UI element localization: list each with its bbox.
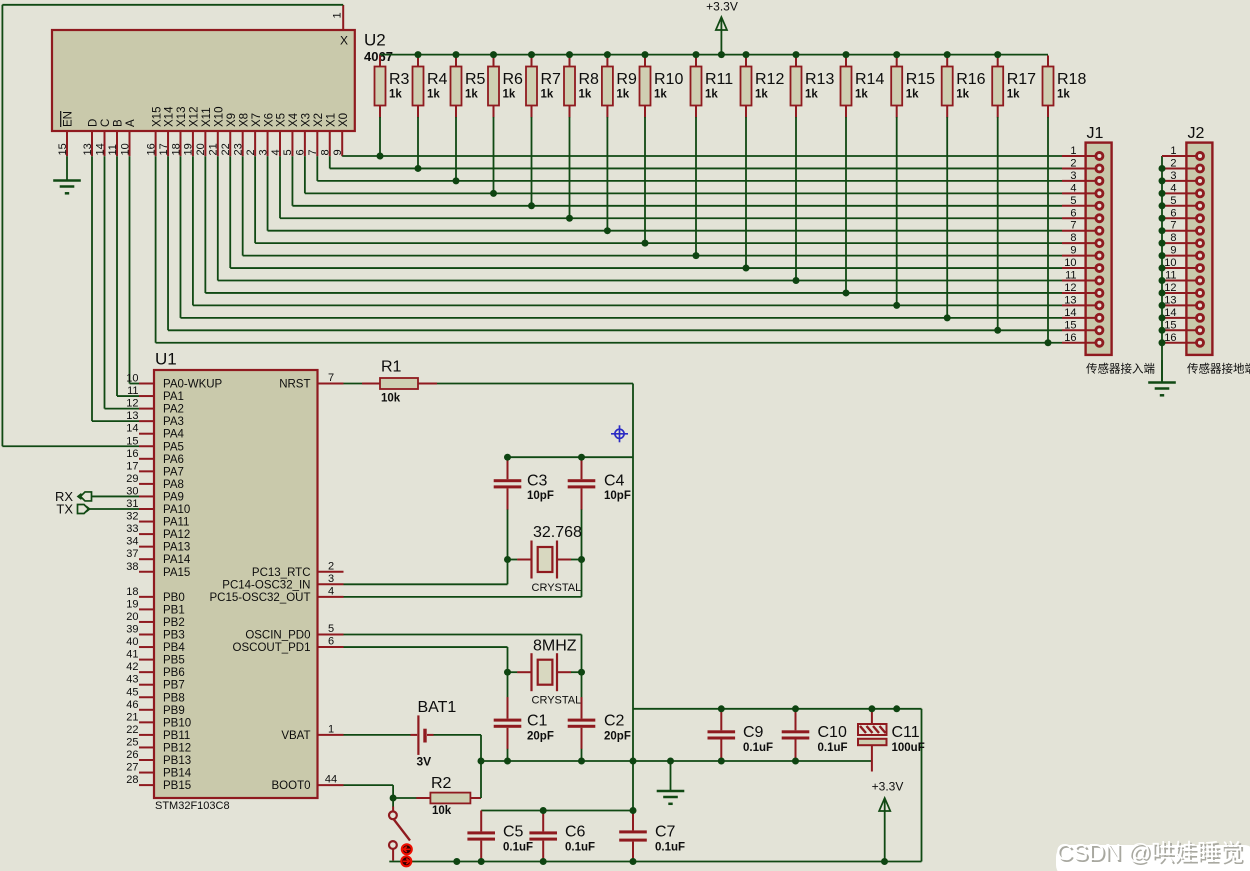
svg-text:PA4: PA4 (163, 429, 184, 441)
svg-text:X1: X1 (325, 113, 337, 127)
J2 pin 15 (1159, 319, 1204, 334)
svg-text:22: 22 (220, 143, 232, 155)
svg-text:10pF: 10pF (604, 490, 631, 502)
svg-text:28: 28 (126, 774, 138, 786)
svg-text:43: 43 (126, 674, 138, 686)
extra junction dot right of C11 (893, 705, 900, 712)
svg-text:33: 33 (126, 523, 138, 535)
svg-text:4: 4 (328, 585, 334, 597)
svg-text:R12: R12 (755, 71, 784, 88)
svg-text:18: 18 (126, 586, 138, 598)
svg-text:CRYSTAL: CRYSTAL (532, 695, 582, 707)
svg-text:14: 14 (126, 423, 138, 435)
svg-text:R11: R11 (705, 71, 733, 88)
svg-text:2: 2 (245, 149, 257, 155)
svg-text:PA5: PA5 (163, 441, 184, 453)
svg-text:1k: 1k (579, 89, 592, 101)
capacitor C7 0.1uF in main vertical (619, 811, 685, 862)
junction dot R9 to row 7 (604, 227, 611, 234)
svg-text:PB3: PB3 (163, 630, 185, 642)
junction dot R10 to row 8 (642, 240, 649, 247)
svg-text:PB2: PB2 (163, 617, 185, 629)
J2 pin 10 (1159, 257, 1204, 272)
J2 pin 8 (1159, 232, 1204, 247)
ground at mid rail (657, 761, 685, 804)
svg-text:R1: R1 (381, 359, 402, 376)
J2 pin 1 (1162, 145, 1204, 160)
svg-text:16: 16 (1064, 332, 1076, 344)
svg-text:13: 13 (1064, 294, 1076, 306)
junction dot R4 to row 2 (415, 165, 422, 172)
svg-text:3: 3 (1170, 170, 1176, 182)
svg-text:7: 7 (307, 149, 319, 155)
svg-text:PB5: PB5 (163, 655, 185, 667)
svg-text:R6: R6 (503, 71, 524, 88)
svg-text:1: 1 (1170, 145, 1176, 157)
svg-text:X6: X6 (263, 113, 275, 127)
svg-text:9: 9 (1070, 245, 1076, 257)
svg-text:20: 20 (126, 611, 138, 623)
svg-text:1k: 1k (541, 89, 554, 101)
svg-text:PC14-OSC32_IN: PC14-OSC32_IN (222, 579, 310, 591)
svg-text:NRST: NRST (279, 379, 310, 391)
svg-text:1k: 1k (906, 89, 919, 101)
wire U2 B to U1 PA1 (117, 156, 139, 396)
svg-text:41: 41 (126, 649, 138, 661)
J2 pin 5 (1159, 195, 1204, 210)
svg-text:3: 3 (1070, 170, 1076, 182)
terminal TX output arrow (56, 502, 139, 517)
wire J2 common vertical to ground (1161, 156, 1163, 381)
svg-text:0.1uF: 0.1uF (565, 842, 595, 854)
junction dot R11 to row 9 (693, 252, 700, 259)
wire U2 X5 to bus row 6 and J1 pin 6 (280, 156, 1062, 218)
svg-text:R2: R2 (431, 775, 452, 792)
svg-text:12: 12 (1164, 282, 1176, 294)
wire R2 to battery rail node (480, 761, 482, 798)
svg-text:0.1uF: 0.1uF (818, 742, 848, 754)
svg-text:R3: R3 (389, 71, 410, 88)
U1 pin PB13 (pin 26) (126, 749, 191, 767)
svg-text:1k: 1k (503, 89, 516, 101)
svg-text:6: 6 (1070, 207, 1076, 219)
resistor R2 10k (393, 775, 481, 817)
svg-text:1k: 1k (1007, 89, 1020, 101)
junction dot +3.3V stem at bottom rail (881, 858, 888, 865)
capacitor C1 20pF (494, 672, 554, 761)
svg-text:PB9: PB9 (163, 705, 185, 717)
wire U2 X7 to bus row 8 and J1 pin 8 (255, 156, 1062, 243)
U2 pin 1 (X output) stub (332, 5, 344, 30)
ground below J2 (1148, 360, 1176, 395)
U1 pin PA0-WKUP (pin 10) (126, 373, 222, 391)
U1 pin PB3 (pin 39) (126, 624, 185, 642)
svg-text:OSCOUT_PD1: OSCOUT_PD1 (233, 642, 311, 654)
J2 pin 7 (1159, 220, 1204, 235)
connector J2 16-pin header (1186, 125, 1212, 355)
capacitor C10 0.1uF (782, 709, 848, 761)
svg-text:X10: X10 (214, 107, 226, 127)
svg-text:40: 40 (126, 636, 138, 648)
J2 pin 4 (1159, 182, 1204, 197)
svg-text:15: 15 (1164, 319, 1176, 331)
svg-text:X4: X4 (288, 112, 300, 127)
J2 pin 9 (1159, 245, 1204, 260)
U1 pin PB4 (pin 40) (126, 636, 185, 654)
svg-text:13: 13 (126, 410, 138, 422)
svg-text:R15: R15 (906, 71, 935, 88)
svg-text:1: 1 (332, 12, 344, 18)
wire U2 D to U1 PA3 (92, 156, 139, 421)
wire U2 X9 to bus row 10 and J1 pin 10 (230, 156, 1062, 268)
svg-text:PC13_RTC: PC13_RTC (252, 567, 311, 579)
svg-text:0.1uF: 0.1uF (655, 842, 685, 854)
svg-text:11: 11 (1165, 270, 1176, 282)
J2 pin 12 (1159, 282, 1204, 297)
junction dot crystal left (504, 556, 511, 563)
svg-text:3: 3 (257, 149, 269, 155)
svg-text:22: 22 (126, 724, 138, 736)
wire U2 X11 to bus row 12 and J1 pin 12 (205, 156, 1062, 293)
U2 pin X0 (pin 9) (332, 113, 350, 156)
resistor R10 1k (640, 51, 684, 247)
wire U2 A to U1 PA0 (130, 156, 140, 383)
U2 pin X11 (pin 20) (195, 107, 213, 156)
svg-text:U2: U2 (364, 31, 386, 50)
resistor R14 1k (841, 51, 885, 296)
IC U2 4067 multiplexer body (52, 30, 393, 131)
svg-text:10k: 10k (432, 805, 452, 817)
svg-text:C3: C3 (527, 473, 548, 490)
J2 pin 14 (1159, 307, 1204, 322)
U1 pin PB10 (pin 21) (126, 711, 191, 729)
wire U2 X12 to bus row 13 and J1 pin 13 (193, 156, 1062, 305)
svg-text:CSDN @哄娃睡觉: CSDN @哄娃睡觉 (1056, 839, 1243, 865)
J2 pin 3 (1159, 170, 1204, 185)
svg-text:25: 25 (126, 736, 138, 748)
svg-text:PB13: PB13 (163, 755, 191, 767)
wire OSCOUT_PD1 to 8MHZ left (344, 647, 508, 672)
resistor R9 1k (602, 51, 637, 234)
svg-text:100uF: 100uF (892, 742, 925, 754)
resistor R4 1k (413, 51, 448, 172)
svg-text:7: 7 (1170, 220, 1176, 232)
svg-text:20pF: 20pF (527, 731, 554, 743)
svg-text:R7: R7 (541, 71, 562, 88)
switch actuator red arrows (401, 844, 412, 866)
svg-text:1k: 1k (755, 89, 768, 101)
+3.3V power symbol top (706, 0, 738, 58)
U1 pin PC14-OSC32_IN (pin 3) (222, 573, 343, 592)
svg-text:X2: X2 (313, 113, 325, 127)
svg-text:0.1uF: 0.1uF (743, 742, 773, 754)
wire U2 X1 to bus row 2 and J1 pin 2 (330, 156, 1062, 168)
U2 pin X6 (pin 3) (257, 113, 275, 156)
wire U2 X4 to bus row 5 and J1 pin 5 (292, 156, 1062, 206)
junction dot R5 to row 3 (453, 177, 460, 184)
wire U2 X3 to bus row 4 and J1 pin 4 (305, 156, 1062, 193)
U1 pin PA3 (pin 13) (126, 410, 184, 428)
svg-text:X11: X11 (201, 107, 213, 127)
junction dot 8MHZ right (578, 669, 585, 676)
svg-text:1k: 1k (616, 89, 629, 101)
svg-text:17: 17 (126, 460, 138, 472)
wire C3 C4 top rail (508, 456, 634, 458)
J1 pin 11 (1062, 270, 1103, 285)
svg-text:R4: R4 (427, 71, 448, 88)
resistor R13 1k (791, 51, 835, 284)
svg-text:2: 2 (328, 560, 334, 572)
svg-text:8: 8 (1070, 232, 1076, 244)
U1 pin PA1 (pin 11) (127, 385, 184, 403)
capacitor C11 100uF electrolytic (858, 709, 925, 772)
svg-text:20pF: 20pF (604, 731, 631, 743)
U1 pin NRST (pin 7) (279, 372, 343, 391)
junction dot C7 top rail (630, 807, 637, 814)
svg-text:7: 7 (328, 372, 334, 384)
svg-text:PA3: PA3 (163, 416, 184, 428)
J2 pin 6 (1159, 207, 1204, 222)
svg-text:A: A (125, 119, 137, 127)
U1 pin PA12 (pin 33) (126, 523, 190, 541)
U1 pin PB15 (pin 28) (126, 774, 191, 792)
U1 pin PB7 (pin 43) (126, 674, 185, 692)
svg-text:37: 37 (126, 548, 138, 560)
crystal X2 32.768 kHz (508, 524, 583, 594)
junction dot R12 to row 10 (743, 265, 750, 272)
J1 pin 10 (1062, 257, 1103, 272)
U2 pin X13 (pin 18) (170, 107, 188, 157)
svg-text:X7: X7 (251, 113, 263, 127)
svg-text:1: 1 (328, 723, 334, 735)
svg-text:6: 6 (295, 149, 307, 155)
U1 pin PB14 (pin 27) (126, 762, 191, 780)
J1 pin 14 (1062, 307, 1103, 322)
U1 pin PB9 (pin 46) (126, 699, 185, 717)
IC U1 STM32F103C8 body (154, 350, 318, 813)
svg-text:46: 46 (126, 699, 138, 711)
svg-text:16: 16 (1164, 332, 1176, 344)
U2 pin X5 (pin 4) (270, 113, 288, 156)
svg-text:PA0-WKUP: PA0-WKUP (163, 379, 223, 391)
U1 pin PA8 (pin 29) (126, 473, 184, 491)
svg-text:PA12: PA12 (163, 529, 190, 541)
svg-text:BOOT0: BOOT0 (272, 780, 311, 792)
J1 pin 2 (1062, 157, 1103, 172)
svg-text:R5: R5 (465, 71, 486, 88)
junction dot on bottom rail (453, 858, 460, 865)
svg-text:C6: C6 (565, 824, 586, 841)
battery BAT1 3V (344, 699, 457, 769)
svg-text:15: 15 (126, 435, 138, 447)
svg-text:PA14: PA14 (163, 554, 191, 566)
svg-text:10k: 10k (381, 393, 401, 405)
svg-text:8: 8 (320, 149, 332, 155)
junction dot C7 bottom (630, 858, 637, 865)
U2 pin X7 (pin 2) (245, 113, 263, 156)
J2 pin 2 (1159, 157, 1204, 172)
+3.3V power symbol bottom (872, 780, 904, 862)
U1 pin PB5 (pin 41) (126, 649, 185, 667)
capacitor C9 0.1uF (708, 709, 774, 761)
J1 pin 1 (1062, 145, 1103, 160)
wire U2 X15 to bus row 16 and J1 pin 16 (156, 156, 1062, 343)
svg-text:+3.3V: +3.3V (706, 0, 738, 14)
svg-text:11: 11 (107, 144, 119, 155)
svg-text:PC15-OSC32_OUT: PC15-OSC32_OUT (210, 592, 311, 604)
capacitor C3 10pF (494, 457, 554, 559)
wire U2 C to U1 PA2 (105, 156, 140, 408)
U1 pin PA14 (pin 37) (126, 548, 191, 566)
svg-text:C: C (100, 119, 112, 127)
svg-text:1k: 1k (389, 89, 402, 101)
svg-text:8MHZ: 8MHZ (533, 638, 577, 655)
junction dot C11 top (868, 705, 875, 712)
junction dot BOOT0 node (390, 795, 397, 802)
svg-text:27: 27 (126, 762, 138, 774)
svg-text:EN: EN (63, 111, 75, 127)
wire R1 to main vertical net (437, 384, 633, 812)
svg-text:23: 23 (232, 143, 244, 155)
resistor R8 1k (564, 51, 599, 222)
U1 pin OSCOUT_PD1 (pin 6) (233, 636, 344, 655)
svg-text:15: 15 (1064, 319, 1076, 331)
svg-text:TX: TX (56, 502, 73, 517)
U1 pin OSCIN_PD0 (pin 5) (245, 623, 343, 642)
wire bottom ground rail (389, 861, 921, 863)
J1 pin 7 (1062, 220, 1103, 235)
J2 pin 16 (1159, 332, 1204, 347)
wire mid rail battery to C11 (481, 760, 872, 762)
junction dot crystal right (578, 556, 585, 563)
J1 pin 8 (1062, 232, 1103, 247)
U2 pin EN (pin 15) (57, 111, 75, 156)
terminal RX input arrow (55, 489, 139, 504)
junction dot R6 to row 4 (490, 190, 497, 197)
junction dot battery/R2 node (478, 758, 485, 765)
junction dot C5 bottom (478, 858, 485, 865)
svg-text:2: 2 (1170, 157, 1176, 169)
svg-text:X12: X12 (189, 107, 201, 127)
junction dot C2 bottom (578, 758, 585, 765)
svg-text:PA6: PA6 (163, 454, 184, 466)
junction dot C6 bottom (540, 858, 547, 865)
svg-text:X8: X8 (238, 113, 250, 127)
U1 pin PA15 (pin 38) (126, 561, 190, 579)
J1 pin 3 (1062, 170, 1103, 185)
wire crystal left to PC14-OSC32_IN (344, 560, 508, 585)
junction dot main vertical at mid rail (630, 758, 637, 765)
wire U2 X14 to bus row 15 and J1 pin 15 (168, 156, 1062, 330)
svg-text:13: 13 (82, 143, 94, 155)
J1 pin 5 (1062, 195, 1103, 210)
svg-text:1k: 1k (855, 89, 868, 101)
svg-text:R17: R17 (1007, 71, 1036, 88)
wire U2 X8 to bus row 9 and J1 pin 9 (243, 156, 1062, 255)
svg-text:C7: C7 (655, 824, 676, 841)
svg-text:19: 19 (183, 143, 195, 155)
svg-text:C10: C10 (818, 724, 847, 741)
junction dot R13 to row 11 (793, 277, 800, 284)
junction dot C9 bottom (718, 758, 725, 765)
svg-text:42: 42 (126, 661, 138, 673)
junction dot R14 to row 12 (843, 289, 850, 296)
svg-text:PA11: PA11 (163, 517, 189, 529)
svg-text:9: 9 (1170, 245, 1176, 257)
svg-text:PA10: PA10 (163, 504, 190, 516)
U2 pin X14 (pin 17) (158, 106, 176, 156)
J2 pin 11 (1159, 270, 1204, 285)
junction dot R7 to row 5 (528, 202, 535, 209)
svg-text:PB4: PB4 (163, 642, 185, 654)
svg-text:10: 10 (1064, 257, 1076, 269)
capacitor C5 0.1uF (467, 811, 533, 862)
svg-text:34: 34 (126, 536, 138, 548)
svg-text:+3.3V: +3.3V (872, 780, 904, 794)
svg-text:VBAT: VBAT (281, 730, 310, 742)
resistor R18 1k (1043, 56, 1087, 347)
junction dot R18 to row 16 (1045, 339, 1052, 346)
svg-text:13: 13 (1164, 294, 1176, 306)
svg-text:X14: X14 (164, 106, 176, 127)
junction dot C6 top (540, 807, 547, 814)
U1 pin VBAT (pin 1) (281, 723, 343, 742)
svg-text:R10: R10 (654, 71, 683, 88)
junction dot C1 bottom (504, 758, 511, 765)
svg-text:1: 1 (1070, 145, 1076, 157)
junction dot R8 to row 6 (566, 215, 573, 222)
svg-text:32: 32 (126, 511, 138, 523)
U1 pin PA10 (pin 31) (126, 498, 190, 516)
svg-text:0.1uF: 0.1uF (503, 842, 533, 854)
U2 pin X8 (pin 23) (232, 113, 250, 156)
svg-text:X3: X3 (301, 113, 313, 127)
U2 pin X3 (pin 6) (295, 113, 313, 156)
svg-text:OSCIN_PD0: OSCIN_PD0 (245, 630, 310, 642)
junction dot R17 to row 15 (994, 327, 1001, 334)
J1 pin 4 (1062, 182, 1103, 197)
svg-text:PB15: PB15 (163, 780, 191, 792)
svg-text:传感器接入端: 传感器接入端 (1086, 362, 1155, 376)
svg-text:传感器接地端: 传感器接地端 (1187, 362, 1250, 376)
svg-text:12: 12 (126, 398, 138, 410)
U1 pin PC13_RTC (pin 2) (252, 560, 344, 579)
svg-text:2: 2 (1070, 157, 1076, 169)
U2 pin X15 (pin 16) (145, 107, 163, 157)
svg-text:PA1: PA1 (163, 391, 184, 403)
J1 pin 12 (1062, 282, 1103, 297)
svg-text:J1: J1 (1087, 125, 1104, 142)
svg-text:C1: C1 (527, 713, 548, 730)
junction dot R15 to row 13 (893, 302, 900, 309)
svg-text:38: 38 (126, 561, 138, 573)
svg-text:1k: 1k (805, 89, 818, 101)
svg-text:PB8: PB8 (163, 692, 185, 704)
svg-text:J2: J2 (1188, 125, 1205, 142)
U1 pin PA2 (pin 12) (126, 398, 184, 416)
ground under U2 EN pin (53, 156, 81, 193)
junction dot ground stem (667, 758, 674, 765)
svg-text:C4: C4 (604, 473, 625, 490)
capacitor C4 10pF (568, 457, 631, 559)
resistor R11 1k (691, 51, 734, 259)
svg-text:PA9: PA9 (163, 491, 184, 503)
svg-text:3V: 3V (417, 755, 432, 769)
svg-text:1k: 1k (427, 89, 440, 101)
svg-text:6: 6 (1170, 207, 1176, 219)
resistor R17 1k (992, 51, 1036, 334)
U2 pin D (pin 13) (82, 119, 100, 157)
